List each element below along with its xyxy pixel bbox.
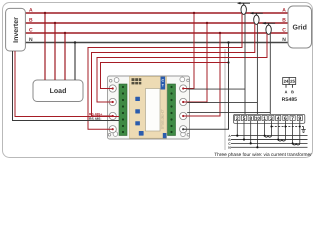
CT3 secondary red lead to meter left — [97, 34, 267, 102]
energy meter body — [108, 76, 190, 139]
dashed earth common line — [271, 126, 303, 128]
junction dot tap C — [219, 32, 221, 34]
junction dot A-load — [44, 12, 46, 14]
meter logo text block — [132, 78, 142, 84]
stub under 25 — [292, 85, 294, 88]
meter screw top-left small — [109, 80, 112, 83]
svg-text:N: N — [29, 37, 33, 43]
inset phase line B — [231, 139, 308, 141]
bus C — [25, 32, 288, 34]
meter bottom blue tag — [163, 133, 167, 138]
terminal 3 wire to CT coil A — [270, 121, 272, 136]
meter terminal circle L4 — [109, 126, 116, 133]
CT1 on bus A — [237, 2, 250, 15]
wire load drop N — [74, 43, 76, 81]
meter CT tag blue — [161, 77, 166, 90]
svg-text:B: B — [282, 18, 286, 24]
meter blue button 2 — [135, 109, 140, 113]
border frame — [3, 3, 313, 158]
meter terminal circle R3 — [180, 112, 187, 119]
neutral sense wire to meter left — [101, 63, 229, 89]
terminal 4 wire to CT coil B — [277, 121, 279, 140]
meter screw bottom-right — [181, 132, 186, 137]
meter LCD — [146, 89, 161, 132]
inset panel divider — [224, 49, 226, 150]
CT2 secondary black lead to strip terminal 10 — [256, 24, 258, 114]
wire load drop C — [64, 33, 66, 80]
stub under 24 — [285, 85, 287, 88]
RS485+ wire from inverter — [15, 51, 119, 117]
bus N — [25, 42, 288, 44]
meter terminal circle L1 — [109, 85, 116, 92]
label B under 25 — [291, 91, 293, 94]
inverter box — [6, 8, 26, 51]
meter blue button 3 — [135, 121, 140, 125]
label RS485 — [282, 97, 297, 101]
CT3 secondary black lead to strip terminal 3 — [269, 34, 271, 114]
svg-text:N: N — [282, 37, 286, 43]
bus A — [25, 12, 288, 14]
svg-text:Grid: Grid — [293, 24, 307, 32]
wire load drop A — [44, 13, 46, 80]
inset CT coil on line A — [265, 136, 272, 138]
RS485- wire from inverter — [13, 51, 120, 121]
meter left terminal strip green — [119, 84, 127, 136]
terminal strip outer — [234, 114, 305, 123]
junction dot B-load — [54, 22, 56, 24]
meter screw bottom-left small — [108, 134, 111, 137]
inset phase line C — [231, 142, 308, 144]
wire load drop B — [54, 23, 56, 80]
meter screw top-left — [114, 78, 119, 83]
grid box — [288, 6, 312, 48]
svg-text:C: C — [29, 28, 33, 34]
green strip screws right — [170, 86, 172, 133]
svg-text:C: C — [282, 28, 286, 34]
label RS485- — [89, 118, 101, 120]
terminal 8 wire to line C — [250, 121, 252, 144]
CT2 on bus B — [250, 12, 263, 25]
voltage tap C to meter right — [183, 33, 220, 116]
meter blue button 1 — [135, 97, 140, 101]
meter right terminal strip green — [168, 84, 176, 136]
CT3 black branch to meter right — [187, 111, 270, 113]
RS485 terminal legend box 25 — [289, 78, 296, 85]
svg-text:A: A — [282, 8, 286, 14]
voltage tap A to meter right — [183, 13, 194, 89]
junction dot tap B — [206, 22, 208, 24]
CT1 secondary red lead to meter left — [88, 14, 242, 129]
load box — [33, 80, 83, 102]
inset neutral line N — [231, 146, 308, 148]
inset CT coil on line C — [293, 143, 300, 145]
green strip screws left — [122, 86, 124, 133]
inset line labels — [228, 135, 230, 137]
terminal 9 wire to CT coil C — [299, 121, 301, 144]
svg-text:A: A — [29, 8, 33, 14]
terminal wire dots right — [182, 87, 184, 89]
svg-text:Three phase four wire: via cur: Three phase four wire: via current trans… — [214, 152, 312, 158]
voltage tap B to meter right — [183, 23, 207, 102]
svg-text:C: C — [161, 79, 164, 83]
meter screw top-right small — [187, 79, 190, 82]
junction dot tap A — [193, 12, 195, 14]
ground symbol — [301, 127, 305, 133]
meter blue button bottom — [139, 131, 144, 136]
CT2 secondary red lead to meter left — [92, 24, 255, 116]
junction dot N-load — [74, 41, 76, 43]
terminal 10 wire to line N — [256, 121, 258, 148]
svg-text:Inverter: Inverter — [13, 17, 20, 43]
terminal 7 wire to CT coil C — [292, 121, 294, 144]
meter terminal circle L2 — [109, 98, 116, 105]
CT1 secondary black lead to strip terminal 5 — [244, 14, 246, 114]
meter terminal circle R4 — [180, 126, 187, 133]
voltage tap N to meter right — [183, 43, 228, 130]
svg-text:B: B — [29, 18, 33, 24]
terminal 6 wire to CT coil B — [284, 121, 286, 140]
meter screw bottom-left — [113, 132, 118, 137]
label A under 24 — [285, 91, 288, 94]
meter face beige panel — [130, 77, 167, 139]
junction dot N sense — [227, 61, 229, 63]
terminal 1 wire to CT coil A — [264, 121, 266, 136]
inset phase line A — [231, 135, 308, 137]
junction dot C-load — [64, 32, 66, 34]
meter terminal circle R2 — [180, 98, 187, 105]
svg-text:DTSD1352-CT: DTSD1352-CT — [161, 109, 165, 129]
CT1 black branch to meter right — [187, 88, 245, 90]
terminal wire dots left — [112, 87, 114, 89]
CT2 black branch to meter right — [187, 102, 257, 104]
terminal 5 wire to line B — [243, 121, 245, 140]
meter terminal circle R1 — [180, 85, 187, 92]
RS485 terminal legend box 24 — [282, 78, 297, 101]
bus B — [25, 22, 288, 24]
coil junction dots — [264, 135, 266, 137]
inset CT coil on line B — [278, 140, 285, 142]
meter screw bottom-right small — [187, 134, 190, 137]
label RS485+ — [89, 113, 102, 115]
svg-text:Load: Load — [50, 87, 67, 95]
junction dot tap N — [227, 41, 229, 43]
meter terminal circle L3 — [109, 112, 116, 119]
CT3 on bus C — [263, 22, 276, 35]
terminal 2 wire to line A — [236, 121, 238, 136]
meter screw top-right — [180, 77, 185, 82]
terminal squares — [235, 115, 303, 120]
